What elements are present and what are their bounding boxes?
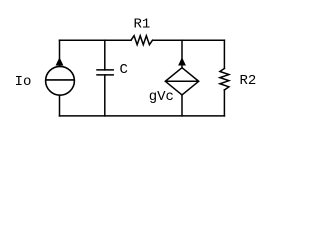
svg-text:C: C [120, 62, 128, 78]
svg-text:gVc: gVc [149, 89, 174, 105]
svg-text:R2: R2 [240, 73, 257, 89]
svg-text:R1: R1 [134, 16, 151, 32]
svg-text:Io: Io [15, 74, 32, 90]
